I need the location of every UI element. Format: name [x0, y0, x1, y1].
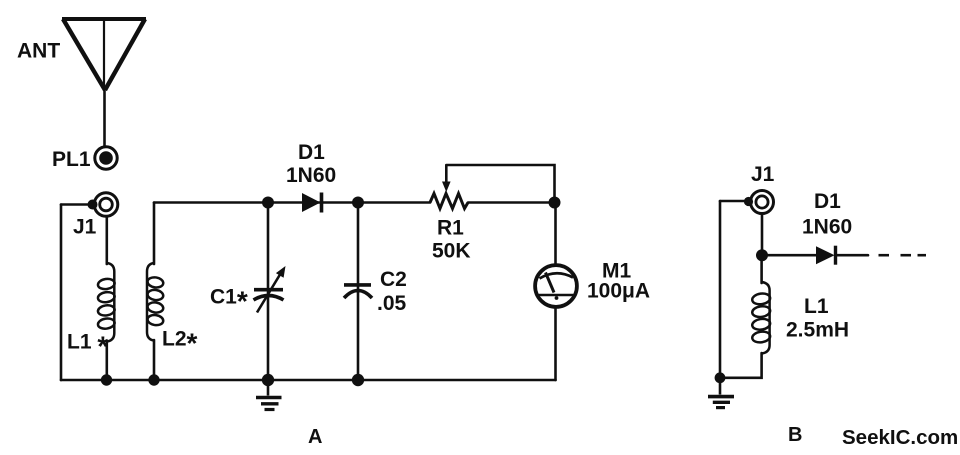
svg-text:D1: D1: [298, 141, 325, 164]
meter M1: [535, 265, 577, 307]
capacitor C1 variable: [254, 266, 286, 313]
wire L2 to bottom rail: [153, 340, 156, 380]
svg-text:J1: J1: [73, 216, 97, 239]
ground circuit A: [256, 380, 282, 410]
wire top rail right segment: [468, 201, 555, 204]
svg-text:B: B: [788, 424, 802, 446]
svg-text:L2*: L2*: [162, 328, 198, 359]
wire meter to bottom rail: [554, 307, 557, 380]
jack J1: [88, 193, 118, 217]
node C1 top: [262, 197, 274, 209]
wire bottom rail: [61, 379, 556, 382]
inductor L1 circuit B: [752, 282, 771, 354]
node L2 bottom: [148, 374, 159, 385]
diode D1: [302, 193, 322, 213]
wire node down to L1 B: [760, 255, 763, 283]
svg-text:L1: L1: [804, 295, 829, 318]
inductor L1: [97, 263, 115, 342]
wire C2 branch: [357, 203, 360, 381]
svg-text:C2: C2: [380, 268, 407, 291]
svg-text:SeekIC.com: SeekIC.com: [842, 426, 958, 449]
wire jack to node B: [761, 214, 764, 256]
wire rail to meter M1: [554, 203, 557, 266]
svg-text:L1 *: L1 *: [67, 331, 108, 362]
R1 wiper arrow: [442, 165, 451, 192]
svg-text:A: A: [308, 426, 322, 448]
svg-text:C1*: C1*: [210, 286, 248, 317]
wire diode B output: [836, 254, 869, 257]
svg-text:1N60: 1N60: [802, 216, 852, 239]
svg-text:ANT: ANT: [17, 40, 60, 63]
node C2 bottom: [352, 374, 364, 386]
wire antenna mast to PL1: [103, 91, 106, 147]
wire C1 branch: [267, 203, 270, 381]
dashed wire circuit B: [879, 254, 927, 257]
antenna ANT: [62, 19, 146, 91]
wire left vertical rail: [60, 205, 63, 381]
svg-text:D1: D1: [814, 190, 841, 213]
wire top rail left segment: [154, 201, 430, 204]
wire B top to jack: [720, 200, 746, 203]
node D1 cathode / C2 top: [352, 197, 364, 209]
wire jack J1 to left rail: [61, 203, 90, 206]
wire B left vertical rail: [719, 201, 722, 378]
svg-text:PL1: PL1: [52, 148, 91, 171]
svg-text:1N60: 1N60: [286, 164, 336, 187]
node B ground junction: [715, 372, 726, 383]
svg-text:100μA: 100μA: [587, 280, 650, 303]
inductor L2: [147, 263, 164, 341]
jack J1 circuit B: [744, 191, 774, 214]
svg-text:J1: J1: [751, 163, 775, 186]
capacitor C2: [344, 285, 372, 298]
wire L1 B to bottom: [720, 353, 762, 378]
ground circuit B: [708, 378, 734, 408]
node meter top: [549, 197, 561, 209]
diode D1 circuit B: [816, 246, 836, 265]
wire L1 to bottom rail: [106, 341, 109, 380]
resistor R1 zigzag: [430, 194, 468, 209]
node C1 bottom / ground: [262, 374, 274, 386]
node B junction: [756, 249, 768, 261]
plug PL1: [95, 147, 117, 169]
svg-text:.05: .05: [377, 292, 407, 315]
wire node to diode B: [762, 254, 816, 257]
svg-text:50K: 50K: [432, 240, 471, 263]
wire R1 wiper to rail: [446, 165, 554, 203]
wire L2 top to rail: [153, 203, 156, 265]
svg-text:R1: R1: [437, 217, 464, 240]
svg-text:2.5mH: 2.5mH: [786, 319, 849, 342]
wire jack J1 down to L1: [106, 217, 109, 265]
node L1 bottom: [101, 374, 112, 385]
